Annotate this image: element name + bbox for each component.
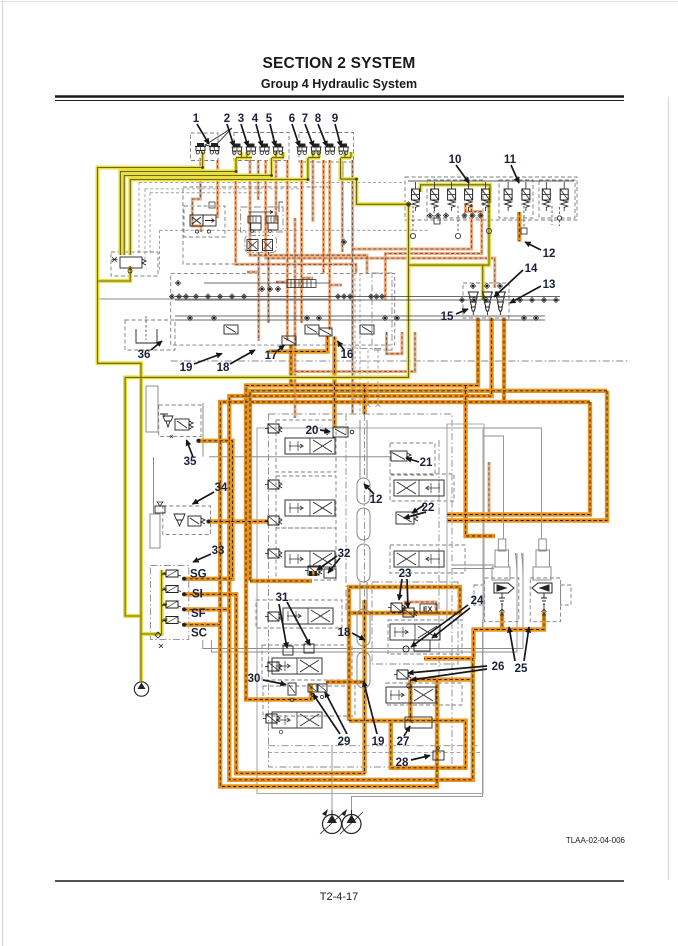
wire lower vertical x364.5 (18/19 line) [291,345,365,414]
wire cylinder valves U (y629.5) [466,385,495,536]
SI pilot valve [162,586,181,593]
wire pilot supply 4 (x130.3) [130,158,308,255]
wire pilot line 4 (y264.3) [300,160,303,270]
wire solenoid output jog (y253.5) [328,160,331,330]
mini spools middle band [190,202,374,345]
main spool row 2 right [394,551,444,567]
svg-text:9: 9 [332,113,338,125]
pilot valve 8 [325,144,336,155]
wire pilot line 8 (x276) [257,160,260,200]
24 targets [403,646,409,652]
svg-text:35: 35 [184,456,197,468]
pilot valve 5 [273,144,284,155]
main spool row 3 left [285,551,335,567]
wire pilot line 6 (x312.9) [322,160,325,273]
wire SF tap [184,623,220,627]
svg-text:14: 14 [525,263,538,275]
pilot valve 9 [338,144,349,155]
dash-dot boxes [150,207,630,767]
svg-text:12: 12 [370,494,383,506]
svg-text:17: 17 [265,350,278,362]
wire valve 16 feed (y351.5) [362,600,366,773]
35 valve [160,414,200,442]
salmon wire 24 [405,602,436,614]
comb component [287,280,316,288]
salmon wire 23 [488,462,491,518]
34 valve [155,502,210,526]
valve 15 [468,292,478,315]
wire rect around valve 23 cluster [309,571,317,576]
wire solenoid to bank 15 (y265.1) [409,203,490,265]
svg-text:3: 3 [238,113,244,125]
pilot valve 1 left stack [195,143,206,154]
21 valve [391,451,411,461]
svg-text:SI: SI [192,589,203,601]
main spool row 1 left [285,438,335,454]
wire solenoid bank rail (y184.8) [421,185,491,203]
wire valve 16 output down (x334.5) [269,337,328,352]
footer rule [55,880,624,882]
svg-text:11: 11 [504,154,517,166]
solenoid valve 23b [400,608,417,617]
solenoid valve unit 2 [431,182,439,211]
dashed pilot-valve boxes 1-9 [111,133,577,717]
20 valve [324,427,353,437]
SC pilot valve [162,617,181,624]
wire pilot line 13 (x329.7) [286,160,289,341]
svg-text:25: 25 [515,663,528,675]
wire pilot line 11 (x287.3) [257,252,260,341]
svg-text:SF: SF [191,608,206,620]
svg-text:18: 18 [217,362,230,374]
wire pilot line 10 (x342.3) [341,161,344,252]
wire 32-valve port highlight [326,680,365,684]
valve 32 solenoid [305,566,322,575]
wire pilot line 3 long (y258.1) to bank 14 [250,160,367,273]
svg-text:EX: EX [423,607,433,614]
wire signal return (y371.5) [351,160,354,414]
wire left cylinder valve stub [474,612,545,659]
main spool row 1 right [394,480,444,496]
header double rule [55,97,624,882]
wire SC tap [447,402,590,515]
main spool row 6 left [272,712,322,728]
middle band diamonds [169,239,558,320]
salmon outline around EX box [291,332,415,372]
svg-text:1: 1 [193,113,200,125]
salmon wire 22 [387,332,403,354]
svg-text:22: 22 [422,502,435,514]
pilot valve 4 [259,144,270,155]
reducing valve (left) [112,257,147,273]
solenoid valve unit 5 [482,182,490,211]
solenoid valve 26 [394,670,411,679]
wire valve 17 output down (x291) [184,441,232,579]
wire pilot line 2 long (y255.2) [236,160,356,273]
svg-text:27: 27 [397,736,410,748]
svg-text:26: 26 [492,661,505,673]
wire bank output 2 (x491.6) big loop to bottom right [209,519,269,523]
svg-text:SC: SC [191,628,207,640]
orange wire 27 [250,391,607,581]
wire pilot supply main (x97.5 down to pump) [98,152,203,681]
main spool row 5 left [272,658,322,674]
wire SG tap to valve 35 [184,594,366,773]
solenoid valve unit 4 (10) [465,182,473,211]
pilot valve 6 [297,144,308,155]
svg-text:5: 5 [266,113,273,125]
wire bank output 3 (x504) top [229,318,491,780]
main spool row 2 left [285,500,335,516]
cylinder holding valve left (25) [494,583,514,616]
svg-text:34: 34 [215,482,228,494]
wire x465.6 down to y536 [517,212,521,242]
wire yellow into bank 14 (x482.7) [481,265,485,300]
36 tank [136,329,157,343]
13/14/15 bank box [463,283,509,318]
pilot lever (valve 1) [205,128,232,147]
capsules [357,420,370,688]
SG pilot valve [162,570,181,577]
pilot valve 1 right stack [209,143,220,154]
wire bank output 1 (x478) to big left loop and valves 29/30 [246,318,478,700]
27 / 28 [405,717,432,728]
solenoid valve 23a [388,603,405,612]
middle band long lines [175,283,560,320]
svg-text:23: 23 [399,568,412,580]
pilot valve 3 [246,144,257,155]
svg-text:21: 21 [420,457,433,469]
wire pilot supply 3 (x124.2) [124,158,271,255]
wire pilot box internal connections [162,574,168,621]
wire vertical x349 (23 cluster to 27 box) [349,587,460,613]
grey wires [98,182,542,814]
yellow wire 13 [236,152,351,158]
wire to valve 32 (y580.9) [250,579,312,583]
wire solenoid 11 stub (12 pointer) [332,337,336,428]
29 / 30 cluster [288,683,296,695]
cylinders 25 [146,386,551,580]
wire branch to solenoid valve 10 (y249) [300,160,303,323]
pilot pump [134,682,148,696]
solenoid valve unit 9 [560,182,568,211]
wire SI tap to bottom loop [184,607,229,611]
wire SG group valve stubs [141,570,161,634]
svg-text:36: 36 [138,349,151,361]
main pump 1 [323,810,342,834]
svg-text:12: 12 [543,248,556,260]
solenoid valve unit 7 [522,182,530,211]
svg-text:15: 15 [441,311,454,323]
pilot valve 2 [232,144,243,155]
svg-text:29: 29 [338,736,351,748]
svg-text:20: 20 [306,425,319,437]
svg-text:8: 8 [315,113,322,125]
22 valve [396,512,418,524]
svg-text:6: 6 [289,113,295,125]
wire main loop (y402) left vertical x220.2 bottom to x437 [502,318,506,402]
main spool row 3 right [390,624,440,640]
cylinder holding valve right (25) [532,583,552,616]
solenoid valve unit 3 [448,182,456,211]
wire pilot supply 2 (x120.4) [120,158,236,255]
orange wire 28 [447,391,607,521]
svg-text:10: 10 [449,154,462,166]
svg-text:32: 32 [338,548,351,560]
svg-text:7: 7 [302,113,308,125]
31 target glyphs [283,646,293,655]
light grey solid housings [257,424,484,794]
svg-text:33: 33 [212,545,225,557]
solenoid valve unit 6 (11) [504,182,512,211]
wire pilot line 12 (x295) [267,252,270,323]
valve 13 [495,292,505,315]
SF pilot valve [162,601,181,608]
svg-text:19: 19 [372,736,385,748]
valve 14 [482,292,492,315]
svg-text:16: 16 [341,349,354,361]
main pump 2 [342,810,361,834]
svg-text:19: 19 [180,362,193,374]
svg-text:2: 2 [224,113,230,125]
solenoid bank 10/11 [408,180,574,182]
svg-text:24: 24 [471,595,484,607]
wire pilot line 5 (x301.7) [311,160,314,222]
solenoid valve unit 1 [412,182,420,211]
svg-text:SG: SG [190,569,207,581]
svg-text:18: 18 [338,627,351,639]
wire valves 29/30 link (y682) [500,612,504,630]
wire bright box left edge x410.4 [410,677,472,681]
svg-text:30: 30 [248,673,261,685]
main spool row 4 left (31) [283,608,333,624]
solenoid valve unit 8 [542,182,550,211]
35 cylinder [146,386,158,432]
pilot valve 7 [311,144,322,155]
35 / 34 boxes [159,405,201,436]
wire wrap to valve 22 (x607) [408,680,412,721]
main spool row 4 right [386,687,436,703]
svg-text:13: 13 [543,279,556,291]
solenoid bank box 10/11 [405,177,577,220]
wire wrap to valve 22 (x590) [220,402,590,787]
wire pilot line 7 (x323.5) [275,160,278,222]
wire U-turn (x386.5-402) [353,204,472,249]
cylinder valve boxes (25) [485,578,519,622]
wire pilot line 9 (x258.2) [192,158,201,232]
wire pilot supply to solenoid bank (y179-204) [341,158,412,204]
wire pilot line to valve 36 jog [266,160,495,288]
svg-text:4: 4 [252,113,259,125]
34 cylinder [150,514,160,548]
wire bright box top edge y679.6 [349,721,466,768]
main valve internal dashed boxes [276,420,336,472]
junction dots [201,166,358,181]
wire box around valves 27/28 [347,613,351,721]
svg-text:28: 28 [396,757,409,769]
wire pilot line 14 (x352.5) [294,218,297,418]
wire pilot line 1 (x217.6) [216,160,219,218]
middle signal control valve boxes [171,273,395,345]
svg-text:31: 31 [276,592,289,604]
wire to valve 22 (x489) [385,204,482,300]
wire SG group supply (x161.6) [98,266,131,281]
wire reducing valve drain (x130.3) [125,204,408,616]
